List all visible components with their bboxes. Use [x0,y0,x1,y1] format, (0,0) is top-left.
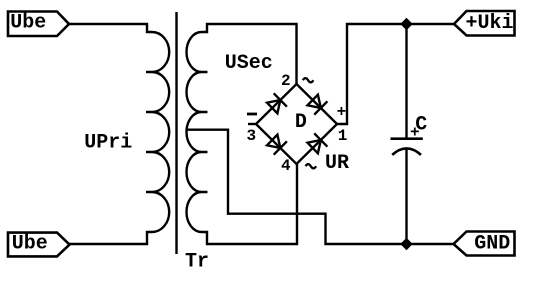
diode D2 (top-right edge) [308,95,328,115]
junction node at GND / C [402,240,411,249]
diode D4 (bottom-right edge) [308,133,328,153]
bridge rectifier D : diamond [256,84,337,164]
capacitor C top plate [391,137,423,140]
node 3 (minus) stub [248,123,256,125]
transformer secondary winding [187,32,208,232]
svg-text:1: 1 [338,127,348,145]
capacitor C bottom lead [405,149,407,244]
svg-text:USec: USec [225,52,273,75]
svg-text:GND: GND [474,232,510,255]
wire Ube to primary top [69,24,152,32]
net label Ube (bottom left) [8,232,70,256]
svg-text:+: + [410,124,420,142]
capacitor C curved bottom plate [392,148,421,154]
transformer primary winding [146,32,169,232]
capacitor C top lead [405,24,407,139]
wire secondary bottom to bridge node 4 [202,164,298,244]
svg-text:2: 2 [281,72,291,90]
svg-text:+Uki: +Uki [466,12,514,35]
svg-text:UR: UR [325,152,349,175]
AC mark top [303,78,314,82]
diode D3 (left-bottom edge) [267,135,287,155]
minus polarity mark [247,113,257,116]
net label +Uki [454,11,515,36]
wire primary bottom to Ube bottom [69,232,152,244]
svg-text:+: + [337,103,347,121]
svg-text:4: 4 [281,157,291,175]
wire secondary top to bridge node 2 [202,24,297,84]
AC mark bottom [306,164,317,168]
junction node at +Uki / C [402,20,411,29]
svg-text:3: 3 [247,127,257,145]
svg-text:Tr: Tr [185,251,209,274]
svg-text:D: D [295,111,307,134]
wire node 1 to +Uki rail [337,24,454,124]
net label GND [454,232,515,256]
svg-text:UPri: UPri [84,132,132,155]
svg-text:Ube: Ube [12,232,48,255]
net label Ube (top left) [8,11,69,36]
wire secondary center tap to GND rail [187,130,454,244]
transformer core [175,12,177,254]
svg-text:Ube: Ube [10,11,46,34]
diode D1 (left-top edge) [267,93,287,113]
